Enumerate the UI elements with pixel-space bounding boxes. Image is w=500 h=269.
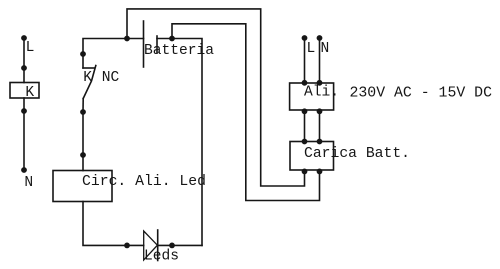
node N (mains left)	[21, 167, 27, 173]
LED D1 triangle	[144, 231, 158, 260]
switch K NC blade	[83, 66, 96, 99]
wire: mains N lead to Ali box (right)	[319, 38, 321, 83]
svg-text:NC: NC	[102, 70, 120, 86]
junction N at Ali box top	[317, 80, 323, 86]
junction below coil K	[21, 108, 27, 114]
wire: battery - to Carica Batt. output (inner loop)	[172, 24, 320, 201]
svg-text:K: K	[83, 70, 92, 86]
junction above switch K NC	[80, 51, 86, 57]
svg-text:Ali.: Ali.	[304, 85, 339, 101]
LED D1 cathode bar	[157, 230, 159, 261]
wire: Circ box to LED anode	[83, 202, 144, 246]
wire: switch to Circ. Ali. Led box	[82, 112, 84, 171]
battery BT1 long plate	[143, 21, 145, 67]
battery charger Carica Batt. box	[290, 142, 334, 171]
wire: top of battery loop (corner above switch to battery +)	[83, 39, 144, 69]
node L (mains left)	[21, 35, 27, 41]
svg-text:Leds: Leds	[144, 249, 179, 265]
Circ. Ali. Led box	[53, 171, 112, 202]
junction on wire to Circ box	[80, 152, 86, 158]
junction at Carica box bottom left	[302, 169, 308, 175]
junction on L lead	[21, 65, 27, 71]
svg-text:230V AC - 15V DC: 230V AC - 15V DC	[350, 86, 493, 102]
wire: Ali box to Carica Batt. box (right)	[319, 110, 321, 142]
junction right of battery	[169, 36, 175, 42]
relay coil K (box)	[10, 83, 39, 99]
svg-text:Batteria: Batteria	[144, 43, 214, 59]
junction at Carica box top right	[317, 139, 323, 145]
battery BT1 short plate	[156, 36, 158, 53]
switch K NC fixed contact tick	[83, 67, 94, 69]
node L (right mains)	[302, 35, 308, 41]
svg-text:L: L	[307, 41, 316, 57]
wire: right side of battery loop up to battery - plate	[157, 39, 202, 246]
junction left of battery	[124, 36, 130, 42]
wire: switch blade to lower terminal	[82, 99, 84, 113]
svg-text:L: L	[26, 40, 35, 56]
junction at Ali box bottom left	[302, 108, 308, 114]
junction at Ali box bottom right	[317, 108, 323, 114]
wire: mains L lead to Ali box (right)	[304, 38, 306, 83]
wire: battery + to Carica Batt. output (outer loop)	[127, 9, 305, 186]
junction on LED anode wire	[124, 243, 130, 249]
wire: relay coil K to mains N	[23, 98, 25, 170]
svg-text:N: N	[24, 175, 33, 191]
svg-text:Carica Batt.: Carica Batt.	[304, 146, 410, 162]
svg-text:Circ. Ali. Led: Circ. Ali. Led	[82, 174, 206, 190]
power supply Ali box	[290, 83, 334, 110]
svg-text:N: N	[321, 41, 330, 57]
junction on LED cathode wire	[169, 243, 175, 249]
junction below switch K NC	[80, 109, 86, 115]
junction L at Ali box top	[302, 80, 308, 86]
junction at Carica box top left	[302, 139, 308, 145]
junction at Carica box bottom right	[317, 169, 323, 175]
wire: LED cathode to right side of loop	[158, 244, 202, 246]
svg-text:K: K	[25, 85, 34, 101]
wire: mains L lead to relay coil K	[23, 38, 25, 83]
wire: Ali box to Carica Batt. box (left)	[304, 110, 306, 142]
node N (right mains)	[317, 35, 323, 41]
